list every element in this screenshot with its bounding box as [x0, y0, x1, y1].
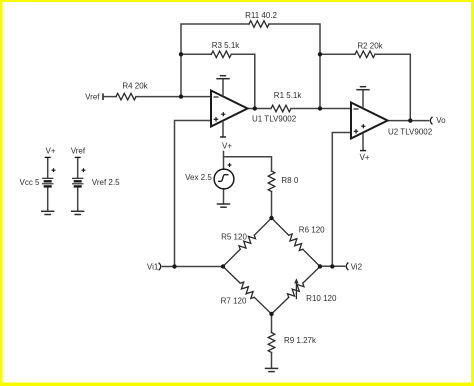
- svg-text:R2 20k: R2 20k: [357, 41, 383, 50]
- svg-text:R8 0: R8 0: [281, 176, 298, 185]
- svg-text:U1 TLV9002: U1 TLV9002: [252, 114, 297, 123]
- svg-text:R9 1.27k: R9 1.27k: [284, 336, 317, 345]
- wire R3 left: [181, 53, 211, 55]
- svg-text:Vi1: Vi1: [147, 263, 159, 272]
- svg-text:Vex 2.5: Vex 2.5: [185, 173, 212, 182]
- svg-text:V+: V+: [360, 153, 370, 162]
- wire R2 right to Vo node: [375, 54, 410, 120]
- bridge edge left-bottom with resistor R7: [223, 267, 240, 284]
- terminal Vref: [102, 94, 104, 99]
- wire Vex source to ground: [223, 189, 225, 204]
- terminal Vi2: [346, 263, 348, 271]
- svg-text:R6 120: R6 120: [299, 225, 325, 234]
- svg-text:R5 120: R5 120: [221, 232, 247, 241]
- svg-text:R10 120: R10 120: [306, 294, 337, 303]
- wire bridge bottom node to R9: [271, 314, 273, 333]
- wire top feedback row: [181, 24, 249, 97]
- wire V+ net from Vex to R8: [223, 152, 225, 170]
- bridge edge bottom-right with resistor R10 (variable): [272, 297, 289, 314]
- terminal Vi1: [159, 263, 161, 271]
- bridge edge left-top with resistor R5: [223, 249, 240, 266]
- svg-text:Vref 2.5: Vref 2.5: [92, 178, 120, 187]
- inverted ground on U2 V- pin: [356, 87, 369, 90]
- bridge edge top-right with resistor R6: [272, 218, 289, 235]
- svg-text:V+: V+: [222, 141, 232, 150]
- wire U1 plus input: [175, 121, 212, 267]
- op-amp U1: [211, 79, 248, 137]
- terminal Vo: [430, 117, 432, 125]
- svg-text:Vref: Vref: [85, 92, 100, 101]
- resistor R3: [211, 51, 231, 58]
- wire U2 output to Vo: [388, 120, 429, 122]
- wire R3 right to U1 output: [231, 54, 255, 108]
- resistor R8: [268, 171, 275, 192]
- wire R4 to U1 minus input: [136, 96, 211, 98]
- wire R1 node to U2 minus input: [320, 108, 351, 110]
- wire R2 left: [320, 53, 355, 55]
- wire R9 to ground: [271, 353, 273, 369]
- svg-text:U2 TLV9002: U2 TLV9002: [388, 127, 433, 136]
- resistor R11: [249, 21, 269, 28]
- svg-text:R3 5.1k: R3 5.1k: [212, 41, 241, 50]
- R10 wiper arrowhead: [294, 278, 298, 283]
- battery Vcc 5: [47, 157, 49, 211]
- svg-text:R1 5.1k: R1 5.1k: [274, 91, 303, 100]
- svg-text:Vi2: Vi2: [351, 262, 363, 271]
- ground below Vex: [217, 204, 230, 207]
- svg-text:R11 40.2: R11 40.2: [245, 11, 277, 20]
- wire bridge right node to Vi2 terminal: [320, 265, 345, 267]
- source Vex 2.5: [214, 163, 234, 189]
- resistor R4: [116, 93, 136, 100]
- ground below Vref battery: [71, 211, 84, 214]
- svg-text:Vref: Vref: [71, 146, 86, 155]
- svg-text:Vcc 5: Vcc 5: [19, 178, 40, 187]
- resistor R2: [355, 51, 375, 58]
- svg-text:Vo: Vo: [436, 116, 446, 125]
- svg-text:R7 120: R7 120: [221, 297, 247, 306]
- wire R8 bottom to bridge top node: [271, 192, 273, 219]
- R10 wiper arrow: [295, 282, 297, 299]
- wire U2 plus input: [332, 133, 351, 267]
- svg-text:R4 20k: R4 20k: [122, 81, 148, 90]
- inverted ground on U1 V- pin: [216, 76, 229, 79]
- resistor R1: [271, 105, 291, 112]
- op-amp U2: [351, 90, 388, 151]
- wire top row right: [269, 24, 320, 109]
- wire R1 leads: [255, 108, 271, 110]
- svg-text:V+: V+: [45, 146, 55, 155]
- wire Vref to R4: [103, 96, 116, 98]
- ground below Vcc battery: [41, 211, 54, 214]
- wire Vi1 terminal to bridge left node: [163, 266, 224, 268]
- wire U1 output: [248, 108, 255, 110]
- resistor R9: [268, 333, 275, 353]
- ground below R9: [265, 368, 278, 371]
- battery Vref 2.5: [77, 157, 79, 211]
